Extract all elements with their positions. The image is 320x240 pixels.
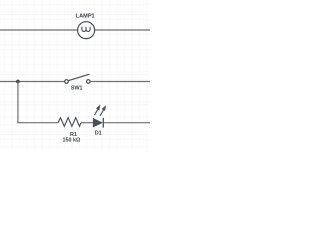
lamp LAMP1: [78, 22, 95, 39]
wire LED to right: [103, 122, 150, 124]
LED D1: [93, 118, 103, 128]
switch SW1: [65, 74, 90, 83]
svg-text:D1: D1: [95, 131, 102, 137]
svg-text:150 kΩ: 150 kΩ: [62, 138, 80, 144]
resistor R1: [58, 118, 81, 127]
wire branch to resistor: [17, 122, 58, 124]
wire middle-right: [90, 81, 150, 83]
wire resistor to LED: [81, 122, 93, 124]
wire top-right: [95, 29, 150, 31]
svg-text:SW1: SW1: [71, 85, 83, 91]
wire branch vertical: [17, 82, 19, 123]
node junction: [16, 80, 20, 84]
wire top-left: [0, 29, 78, 31]
LED arrow 1: [95, 104, 101, 115]
wire middle-left: [0, 81, 65, 83]
LED arrow 2: [100, 105, 106, 116]
svg-text:LAMP1: LAMP1: [76, 13, 95, 19]
